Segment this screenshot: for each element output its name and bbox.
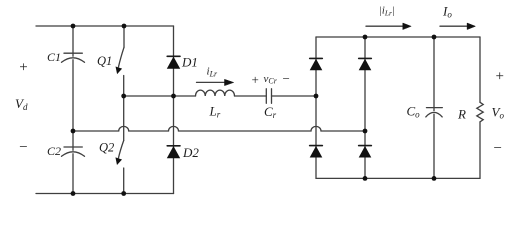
node C1-C2 midpoint (71, 129, 76, 134)
svg-text:R: R (457, 107, 466, 122)
wire Co leg top (433, 37, 435, 111)
svg-text:Q1: Q1 (97, 54, 112, 68)
wire Q-leg top (123, 26, 125, 47)
svg-text:−: − (19, 140, 27, 156)
capacitor C2 (62, 147, 85, 156)
svg-text:Co: Co (407, 104, 421, 120)
wire D-leg (173, 26, 175, 194)
svg-text:−: − (494, 140, 502, 156)
wire R leg bottom (479, 122, 481, 178)
node Q1 top (122, 24, 127, 29)
wire mid-rail to C2 (72, 131, 74, 150)
wire bridge right leg (364, 37, 366, 178)
svg-text:C2: C2 (47, 144, 61, 158)
wire R leg top (479, 37, 481, 102)
wire capacitor-leg top (72, 26, 74, 56)
svg-text:Cr: Cr (264, 104, 277, 120)
wire output bottom rail (316, 177, 480, 179)
node Q2 bottom (121, 191, 126, 196)
svg-text:Io: Io (442, 4, 452, 20)
svg-text:D1: D1 (181, 55, 198, 70)
node D-leg tank junction (171, 94, 176, 99)
svg-text:−: − (283, 71, 290, 86)
svg-text:iLr: iLr (207, 66, 219, 79)
svg-text:C1: C1 (47, 50, 61, 64)
svg-text:Q2: Q2 (99, 141, 114, 155)
capacitor C1 (62, 53, 85, 62)
wire output top rail (316, 36, 480, 38)
wire bridge left leg (315, 37, 317, 178)
svg-text:Vo: Vo (492, 105, 505, 121)
resistor R (477, 102, 483, 122)
node bridge right mid (363, 129, 368, 134)
diode bridge top-right (359, 58, 372, 70)
arrow |i_Lr| (366, 23, 411, 29)
node bridge left mid (314, 94, 319, 99)
wire Q-leg middle (123, 96, 125, 141)
node bridge right bottom (363, 176, 368, 181)
capacitor Cr (266, 89, 271, 104)
node Co top (432, 35, 437, 40)
arrow i_Lr (197, 79, 234, 85)
inductor Lr (196, 90, 235, 96)
wire Cr to bridge (272, 95, 317, 97)
node C1 top (71, 24, 76, 29)
diode bridge bottom-left (310, 146, 323, 158)
node Co bottom (432, 176, 437, 181)
wire resonant-tank rail (124, 95, 196, 97)
wire Co leg bottom (433, 114, 435, 178)
svg-text:+: + (496, 69, 504, 85)
wire C1 to mid-rail (72, 60, 74, 131)
diode bridge bottom-right (359, 146, 372, 158)
capacitor Co (426, 108, 443, 117)
node switch midpoint (121, 94, 126, 99)
svg-text:Vd: Vd (15, 96, 28, 112)
svg-text:|iLr|: |iLr| (379, 6, 395, 18)
switch Q1 (116, 47, 124, 96)
node bridge right top (363, 35, 368, 40)
svg-text:+: + (19, 59, 27, 75)
svg-text:D2: D2 (182, 145, 199, 160)
diode D1 (167, 56, 180, 68)
wire mid rail (cap midpoint to bridge) with hops (73, 126, 365, 131)
diode D2 (167, 146, 180, 158)
switch Q2 (116, 141, 124, 194)
svg-text:+: + (252, 72, 259, 87)
wire top-left rail (36, 25, 174, 27)
wire Lr to Cr (235, 95, 267, 97)
svg-text:vCr: vCr (264, 73, 278, 86)
wire C2 to bottom rail (72, 154, 74, 194)
diode bridge top-left (310, 58, 323, 70)
arrow I_o (440, 23, 475, 29)
wire bottom-left rail (36, 193, 174, 195)
svg-text:Lr: Lr (209, 104, 221, 120)
node C2 bottom (71, 191, 76, 196)
